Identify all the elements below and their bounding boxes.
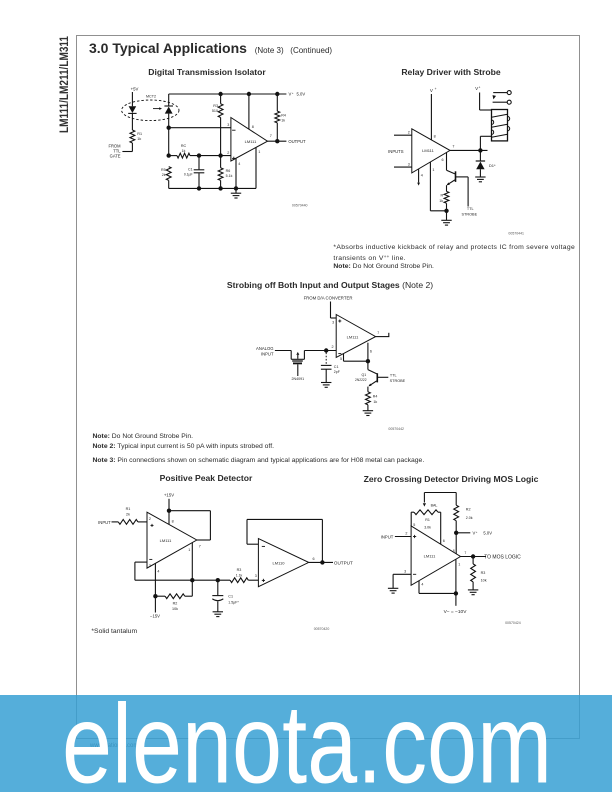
svg-text:6: 6	[443, 539, 445, 543]
svg-text:TTL: TTL	[390, 374, 397, 378]
svg-text:6: 6	[370, 349, 372, 353]
svg-text:5.1k: 5.1k	[226, 174, 233, 178]
svg-text:10k: 10k	[172, 607, 178, 611]
svg-text:INPUT: INPUT	[98, 520, 111, 525]
svg-text:GATE: GATE	[110, 154, 121, 159]
svg-text:1: 1	[188, 548, 190, 552]
svg-text:FROM D/A CONVERTER: FROM D/A CONVERTER	[304, 295, 353, 300]
svg-text:4: 4	[157, 570, 159, 574]
svg-text:1k: 1k	[182, 149, 186, 153]
svg-text:1.1k: 1.1k	[236, 573, 243, 577]
svg-text:4: 4	[421, 174, 423, 178]
svg-text:RC: RC	[181, 144, 187, 148]
svg-text:LM111: LM111	[422, 148, 434, 153]
svg-text:C1: C1	[334, 365, 339, 369]
svg-text:7: 7	[452, 144, 454, 148]
svg-text:510: 510	[212, 109, 218, 113]
svg-text:8: 8	[252, 125, 254, 129]
svg-text:5.0V: 5.0V	[483, 530, 492, 535]
svg-text:3: 3	[408, 163, 410, 167]
svg-text:7: 7	[199, 544, 201, 548]
svg-text:8: 8	[172, 520, 174, 524]
svg-text:STROBE: STROBE	[461, 213, 477, 217]
svg-text:R1: R1	[425, 518, 430, 522]
svg-text:2: 2	[332, 345, 334, 349]
svg-text:2k: 2k	[162, 173, 166, 177]
svg-text:V− = −10V: V− = −10V	[444, 609, 468, 615]
svg-text:STROBE: STROBE	[390, 379, 406, 383]
svg-text:6: 6	[442, 158, 444, 162]
svg-text:0.1µF: 0.1µF	[184, 173, 193, 177]
svg-text:R2: R2	[173, 601, 178, 605]
svg-text:7: 7	[464, 551, 466, 555]
svg-text:D1*: D1*	[489, 163, 496, 168]
svg-text:TTL: TTL	[467, 207, 474, 211]
svg-text:+: +	[292, 91, 294, 95]
svg-text:+: +	[479, 85, 481, 89]
svg-text:+15V: +15V	[164, 492, 174, 497]
svg-text:00570420: 00570420	[314, 627, 330, 631]
svg-text:+: +	[435, 87, 437, 91]
svg-text:3: 3	[404, 569, 406, 573]
svg-text:BAL: BAL	[431, 503, 438, 507]
svg-text:LM111: LM111	[347, 334, 359, 339]
svg-text:2: 2	[405, 531, 407, 535]
svg-text:00570424: 00570424	[505, 621, 521, 625]
svg-text:7: 7	[377, 331, 379, 335]
svg-text:1k: 1k	[137, 137, 141, 141]
svg-text:00570442: 00570442	[388, 427, 404, 431]
svg-text:LM111/LM211/LM311: LM111/LM211/LM311	[57, 36, 71, 133]
svg-text:INPUTS: INPUTS	[388, 149, 404, 154]
svg-text:LM111: LM111	[160, 538, 172, 543]
svg-text:4: 4	[238, 162, 240, 166]
svg-text:00570441: 00570441	[508, 232, 524, 236]
svg-text:OUTPUT: OUTPUT	[288, 139, 306, 144]
svg-text:LM111: LM111	[424, 553, 436, 558]
svg-text:R3: R3	[213, 104, 218, 108]
svg-text:1k: 1k	[373, 400, 377, 404]
svg-text:6: 6	[313, 557, 315, 561]
svg-text:INPUT: INPUT	[261, 352, 274, 357]
svg-text:C1: C1	[188, 168, 193, 172]
svg-text:R1: R1	[126, 507, 131, 511]
svg-text:+: +	[476, 530, 478, 534]
svg-text:1k: 1k	[439, 199, 443, 203]
svg-text:R4: R4	[281, 114, 286, 118]
svg-text:R5: R5	[161, 168, 166, 172]
svg-text:5: 5	[413, 523, 415, 527]
svg-text:10k: 10k	[481, 578, 487, 582]
svg-text:5: 5	[340, 357, 342, 361]
svg-text:OUTPUT: OUTPUT	[334, 560, 353, 565]
svg-text:−15V: −15V	[150, 613, 160, 618]
svg-text:1.5µF*: 1.5µF*	[228, 600, 239, 604]
svg-text:LM110: LM110	[273, 560, 286, 565]
svg-text:R3: R3	[481, 571, 486, 575]
svg-text:V: V	[430, 88, 433, 93]
svg-text:+5V: +5V	[131, 87, 139, 92]
svg-text:R3: R3	[237, 568, 242, 572]
svg-text:4: 4	[421, 582, 423, 586]
svg-text:R4: R4	[373, 395, 378, 399]
svg-text:MCT2: MCT2	[146, 95, 156, 99]
svg-text:1: 1	[258, 150, 260, 154]
svg-text:C1: C1	[228, 594, 233, 598]
svg-text:LM111: LM111	[245, 139, 257, 144]
svg-text:R1: R1	[137, 132, 142, 136]
svg-text:R6: R6	[226, 169, 231, 173]
svg-text:7: 7	[270, 134, 272, 138]
svg-text:1: 1	[432, 168, 434, 172]
svg-text:2: 2	[149, 517, 151, 521]
svg-text:R: R	[441, 193, 444, 197]
svg-text:00570440: 00570440	[292, 204, 308, 208]
svg-text:2.0k: 2.0k	[466, 516, 473, 520]
svg-text:2pF: 2pF	[334, 370, 340, 374]
svg-text:1: 1	[458, 562, 460, 566]
svg-text:R2: R2	[466, 507, 471, 511]
svg-text:3: 3	[227, 123, 229, 127]
svg-text:Q1: Q1	[362, 373, 367, 377]
svg-text:2: 2	[227, 151, 229, 155]
svg-text:ANALOG: ANALOG	[256, 346, 273, 351]
svg-text:2: 2	[408, 131, 410, 135]
svg-text:3: 3	[255, 574, 257, 578]
svg-text:3: 3	[332, 321, 334, 325]
svg-text:3.0k: 3.0k	[424, 525, 431, 529]
svg-text:1k: 1k	[281, 119, 285, 123]
svg-text:5.0V: 5.0V	[297, 92, 306, 97]
svg-text:2N2222: 2N2222	[355, 378, 367, 382]
svg-text:2k: 2k	[126, 513, 130, 517]
svg-text:TO MOS LOGIC: TO MOS LOGIC	[484, 555, 521, 561]
svg-text:elenota.com: elenota.com	[62, 695, 552, 793]
svg-text:2N4091: 2N4091	[292, 377, 305, 381]
svg-text:8: 8	[434, 135, 436, 139]
svg-text:INPUT: INPUT	[381, 534, 394, 539]
